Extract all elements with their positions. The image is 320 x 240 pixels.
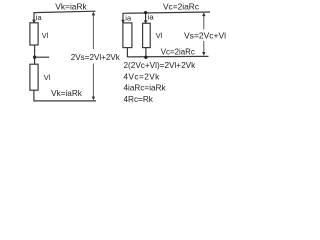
current arrow ia (down) on left wire (32, 20, 36, 23)
svg-text:Vl: Vl (156, 31, 163, 40)
node (junction dot, left divider midpoint) (33, 56, 36, 59)
svg-text:Vk=iaRk: Vk=iaRk (51, 89, 83, 98)
resistor (right parallel, Rc) (143, 23, 151, 47)
svg-text:Vl: Vl (44, 73, 51, 82)
wire from top rail down to right parallel resistor (145, 13, 147, 24)
resistor (upper left, Vl) (30, 23, 38, 45)
svg-text:ia: ia (125, 14, 132, 23)
measurement arrow 2Vs lower segment (arrowhead down at bottom rail) (92, 64, 94, 100)
svg-text:Vl: Vl (42, 31, 49, 40)
measurement arrow Vs upper segment (arrowhead up at top rail) (203, 14, 205, 30)
resistor (lower left, Vl) (30, 64, 38, 90)
wire bottom rail right circuit (from left resistor down, then right) (127, 48, 208, 57)
svg-text:ia: ia (36, 13, 43, 22)
wire between left resistors (34, 45, 36, 64)
svg-text:Vc=2iaRc: Vc=2iaRc (163, 2, 199, 12)
wire stub from midpoint node to the right (35, 56, 50, 58)
svg-text:Vc=2iaRc: Vc=2iaRc (161, 48, 195, 57)
resistor (left parallel, Rc) (123, 23, 132, 48)
svg-text:Vk=iaRk: Vk=iaRk (55, 2, 87, 12)
measurement arrow Vs lower segment (arrowhead down at bottom rail) (203, 41, 205, 55)
wire from right resistor down to bottom rail (145, 48, 147, 58)
svg-text:4Vc=2Vk: 4Vc=2Vk (124, 72, 161, 81)
wire top-left: from upper resistor top up and right along top rail (34, 11, 96, 23)
svg-text:2(2Vc+Vl)=2Vl+2Vk: 2(2Vc+Vl)=2Vl+2Vk (124, 61, 197, 70)
current arrow ia (down) on left parallel branch (121, 20, 125, 23)
node (junction dot on top rail) (144, 11, 147, 14)
current arrow ia (down) on right parallel branch (144, 20, 148, 23)
svg-text:Vs=2Vc+Vl: Vs=2Vc+Vl (184, 30, 226, 40)
svg-text:4Rc=Rk: 4Rc=Rk (124, 95, 154, 104)
svg-text:ia: ia (148, 13, 155, 22)
measurement arrow 2Vs upper segment (arrowhead up at top rail) (92, 14, 94, 50)
svg-text:4iaRc=iaRk: 4iaRc=iaRk (124, 84, 167, 93)
node (junction dot on bottom rail) (144, 56, 147, 59)
wire bottom-left: from lower resistor down and right along bottom rail (34, 90, 96, 101)
wire top rail right circuit (123, 12, 210, 23)
svg-text:2Vs=2Vl+2Vk: 2Vs=2Vl+2Vk (71, 53, 121, 62)
